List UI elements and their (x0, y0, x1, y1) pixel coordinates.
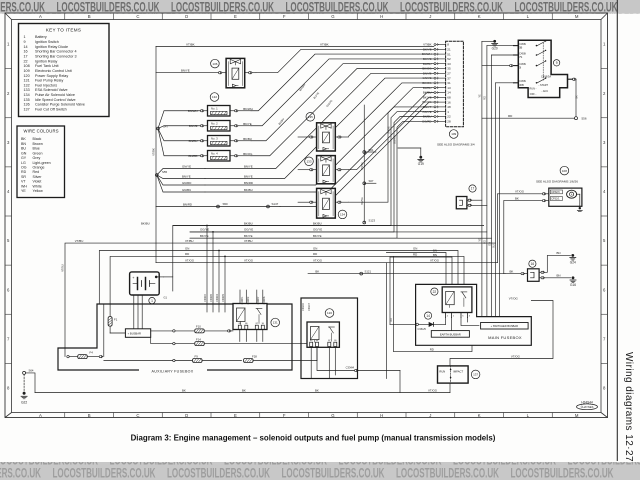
svg-text:OG: OG (21, 166, 27, 170)
diode item 14 (425, 312, 432, 319)
svg-text:VT/OG: VT/OG (185, 259, 195, 263)
frame corner diagonals (5, 13, 12, 20)
svg-text:14: 14 (24, 45, 28, 49)
bus row BK/YE (190, 237, 492, 239)
ECU pin 68 (BK/YE) (436, 96, 445, 98)
svg-text:VT/OG: VT/OG (430, 259, 440, 263)
svg-text:C456/: C456/ (519, 62, 526, 66)
bus row BK/BU (173, 226, 484, 292)
svg-text:F14: F14 (196, 337, 201, 341)
svg-text:BN/RD: BN/RD (189, 154, 198, 158)
risers to fuseboxes (385, 263, 387, 379)
svg-text:J: J (429, 14, 431, 19)
fuel cut off switch item 137 (438, 366, 469, 383)
svg-text:VT/BK: VT/BK (152, 148, 156, 156)
16 to G24 (539, 271, 541, 273)
svg-text:9: 9 (24, 40, 26, 44)
svg-text:- START: - START (539, 84, 549, 87)
svg-text:21: 21 (447, 47, 451, 51)
svg-text:BN: BN (557, 251, 561, 255)
wire BN/YE/BN/YE from S55 (157, 175, 205, 179)
border frame outer (5, 13, 608, 418)
svg-text:GN/YE: GN/YE (182, 165, 191, 169)
ECU pin 31 (BK/OG) (436, 82, 445, 84)
bus row OG/YE (190, 231, 487, 233)
svg-text:KEY TO ITEMS: KEY TO ITEMS (46, 28, 82, 33)
svg-text:135: 135 (308, 115, 313, 119)
svg-text:G19: G19 (418, 162, 424, 166)
bottom BK earth wire (35, 392, 450, 394)
svg-text:35: 35 (447, 67, 451, 71)
ECU connector item 109 dashed box (446, 41, 464, 127)
svg-text:BK: BK (242, 388, 246, 392)
injector No.1 (208, 106, 231, 117)
svg-text:RUN -: RUN - (530, 87, 537, 90)
svg-text:9: 9 (556, 61, 558, 65)
svg-text:52: 52 (447, 57, 451, 61)
fuel injectors item 132 (210, 93, 219, 102)
svg-text:J: J (429, 413, 431, 418)
svg-text:S55: S55 (162, 170, 168, 174)
ECU pin 27 (BN/YE) (436, 72, 445, 74)
svg-text:C339/5: C339/5 (222, 293, 225, 301)
VT/OG wire fusebox to inertia switch (450, 301, 553, 366)
wire BK/WH to ECU pin 51 (251, 54, 434, 111)
fuel pump relay item 131 (233, 304, 267, 330)
svg-text:G1: G1 (164, 296, 168, 300)
valve pin wires (298, 136, 309, 138)
svg-text:S147: S147 (272, 202, 279, 206)
svg-text:M: M (575, 413, 579, 418)
svg-text:C339/4: C339/4 (204, 293, 207, 301)
wire BK/OG to ECU pin 35 (251, 69, 434, 156)
ECU circled ref 109 (449, 130, 458, 139)
svg-text:E: E (234, 413, 237, 418)
wire BK/BU to ECU pin 14 (205, 93, 434, 193)
RD wire below fusebox (393, 256, 472, 351)
wire GN/YE/BN/YE from S55 (157, 169, 205, 176)
svg-text:VT/BK: VT/BK (320, 42, 329, 46)
svg-text:E: E (234, 14, 237, 19)
svg-text:YE: YE (21, 189, 26, 193)
grid row ticks (5, 68, 11, 70)
power supply relay enclosure item 120 (301, 298, 358, 379)
main fusebox outline (416, 284, 532, 345)
svg-text:28: 28 (447, 119, 451, 123)
svg-text:Shorting Bar Connector 3: Shorting Bar Connector 3 (35, 54, 77, 58)
svg-text:Fuel Pump Relay: Fuel Pump Relay (35, 79, 63, 83)
svg-text:BK: BK (510, 269, 514, 273)
riser BK to bus (503, 201, 505, 274)
svg-text:CP32/1: CP32/1 (551, 198, 560, 201)
earth busbar (431, 331, 469, 338)
svg-text:BN/YE: BN/YE (244, 175, 253, 179)
svg-text:Green: Green (33, 151, 43, 155)
svg-text:Red: Red (33, 170, 40, 174)
ECU pin 1 (OG/YE) (436, 111, 445, 113)
shorting bar connector item 17 (456, 197, 467, 209)
svg-text:27: 27 (447, 71, 451, 75)
svg-text:131: 131 (24, 79, 30, 83)
svg-text:BK/BU: BK/BU (141, 221, 150, 225)
svg-text:OG/YE: OG/YE (200, 228, 209, 232)
svg-text:BK: BK (182, 388, 186, 392)
svg-text:1: 1 (24, 35, 26, 39)
svg-text:CP32/3: CP32/3 (551, 191, 560, 194)
scanned page right edge line (616, 0, 618, 461)
bus row RD (110, 256, 464, 316)
svg-text:14: 14 (447, 91, 451, 95)
svg-text:M: M (575, 14, 579, 19)
svg-text:RUN: RUN (439, 369, 445, 373)
svg-text:BK/YE: BK/YE (313, 234, 322, 238)
svg-text:Orange: Orange (33, 166, 45, 170)
valve pin wires (298, 201, 309, 203)
svg-text:7S: 7S (519, 55, 522, 59)
svg-text:GN/RD: GN/RD (182, 181, 191, 185)
injector No.4 (208, 151, 231, 162)
svg-text:White: White (33, 184, 42, 188)
svg-text:+ SWITCHED BUSBAR: + SWITCHED BUSBAR (491, 324, 519, 328)
ECU pin 8 (VT/BK) (436, 44, 445, 46)
svg-text:C361/5: C361/5 (418, 327, 427, 331)
svg-text:OG/YE: OG/YE (394, 136, 397, 144)
svg-text:S50: S50 (223, 202, 229, 206)
svg-text:C456/: C456/ (519, 79, 526, 83)
switch wire joints (487, 45, 514, 47)
svg-text:YE: YE (479, 238, 482, 242)
valve pin wires (298, 169, 309, 171)
svg-text:WH: WH (21, 184, 27, 188)
svg-text:SEE ALSO DIAGRAMS 1/6/26: SEE ALSO DIAGRAMS 1/6/26 (536, 180, 578, 184)
svg-text:C: C (136, 14, 139, 19)
svg-text:RD: RD (21, 170, 27, 174)
fuse F14 row (151, 337, 173, 343)
wire BK/BU to ECU pin 13 (205, 88, 434, 185)
wire BK/OG to ECU pin 31 (349, 83, 434, 136)
svg-text:109: 109 (24, 69, 30, 73)
svg-text:1: 1 (151, 299, 153, 303)
svg-text:16: 16 (447, 100, 451, 104)
wire GN/BU/BK/BU from S55 (157, 175, 205, 192)
wire VT/BK top run (156, 46, 434, 48)
svg-text:F4: F4 (90, 350, 94, 354)
svg-text:VT/OG: VT/OG (515, 190, 525, 194)
wire RD from 556 to ECU area (482, 117, 575, 119)
svg-text:17: 17 (471, 187, 475, 191)
svg-text:BN/RD: BN/RD (244, 181, 253, 185)
svg-text:31: 31 (447, 81, 451, 85)
svg-text:C456/3A: C456/3A (541, 75, 551, 79)
svg-text:BN: BN (433, 248, 437, 252)
splice S64 and ground G22 (23, 371, 26, 374)
svg-text:SEE ALSO DIAGRAMS 3/4: SEE ALSO DIAGRAMS 3/4 (437, 142, 475, 146)
ECU pin 14 (BK/BU) (436, 92, 445, 94)
wire BN/YT to ECU pin 48 (349, 107, 434, 202)
svg-text:VT/BU: VT/BU (185, 239, 194, 243)
svg-text:120: 120 (327, 311, 332, 315)
wire C339/9 into auxiliary fusebox (212, 232, 214, 312)
wire OG/RD to ECU pin 28 (190, 121, 434, 238)
svg-text:C339/7: C339/7 (257, 296, 260, 304)
canister purge solenoid valve item 136 (156, 72, 218, 74)
svg-text:VT/OG: VT/OG (428, 388, 438, 392)
svg-text:+ BUSBAR: + BUSBAR (128, 331, 141, 335)
svg-text:136: 136 (24, 103, 30, 107)
svg-text:G24: G24 (570, 260, 576, 264)
svg-text:136: 136 (212, 62, 217, 66)
svg-text:BN/WH: BN/WH (188, 109, 198, 113)
svg-text:48: 48 (447, 105, 451, 109)
wire GN/RD/BN/RD from S55 (157, 175, 205, 185)
wire BK/YE to ECU pin 21 (256, 49, 434, 72)
svg-text:K: K (478, 14, 481, 19)
svg-text:BN: BN (21, 142, 26, 146)
svg-text:C: C (136, 413, 139, 418)
svg-text:BK: BK (315, 388, 319, 392)
svg-text:30B: 30B (519, 83, 524, 87)
svg-text:Ignition Switch: Ignition Switch (35, 40, 59, 44)
injector No.2 (208, 121, 231, 132)
ECU pin 28 (OG/RD) (436, 120, 445, 122)
svg-text:VT/BU: VT/BU (75, 239, 84, 243)
svg-text:5B: 5B (519, 46, 522, 50)
wire from switch to splice 556 (575, 79, 577, 117)
wire C339/3 into auxiliary fusebox (218, 251, 220, 313)
svg-text:EARTH BUSBAR: EARTH BUSBAR (440, 332, 461, 336)
pulse air solenoid valve item 134 (317, 188, 336, 218)
wire OG/YE to ECU pin 1 (173, 112, 434, 226)
wire colours box (17, 126, 65, 198)
svg-text:Grey: Grey (33, 156, 41, 160)
svg-text:51: 51 (447, 52, 451, 56)
svg-text:Fuel Tank Unit: Fuel Tank Unit (35, 64, 59, 68)
wire BN/RD with splices S50 and S147 (156, 206, 280, 208)
svg-text:22: 22 (433, 290, 437, 294)
wire BK/YE to ECU pin 68 (349, 97, 434, 169)
riser VT/OG to bus (497, 194, 499, 263)
svg-text:VT/BU: VT/BU (244, 239, 253, 243)
svg-text:GN: GN (313, 246, 317, 250)
svg-text:C456/: C456/ (519, 42, 526, 46)
svg-text:BK/WH: BK/WH (243, 107, 252, 111)
svg-text:BK/YE: BK/YE (243, 122, 252, 126)
grid column ticks (64, 14, 66, 20)
svg-text:C456/: C456/ (519, 51, 526, 55)
svg-text:GN: GN (185, 246, 189, 250)
svg-text:133: 133 (24, 88, 30, 92)
ECU pin 22 (BK/BU) (436, 116, 445, 118)
svg-text:22: 22 (447, 115, 451, 119)
svg-text:VT/OG: VT/OG (509, 296, 519, 300)
svg-text:S123: S123 (369, 218, 376, 222)
svg-text:B: B (88, 413, 91, 418)
svg-text:BN: BN (557, 274, 561, 278)
battery item 1 (130, 272, 160, 295)
svg-text:OG/YE: OG/YE (313, 228, 322, 232)
ECU pin 52 (BK/YE) (436, 58, 445, 60)
ECU pin 16 (BK/OG) (436, 101, 445, 103)
svg-text:22: 22 (24, 59, 28, 63)
bus row VT/OG (156, 262, 498, 264)
fuse F9 / F28 row (104, 360, 173, 362)
svg-text:Battery: Battery (35, 35, 47, 39)
wire BK/BU to ECU pin 22 (190, 117, 434, 232)
svg-text:BU: BU (21, 147, 26, 151)
svg-text:G16: G16 (570, 283, 576, 287)
svg-text:137: 137 (24, 108, 30, 112)
wire BK/BU to ECU pin 33 (251, 64, 434, 141)
svg-text:F1: F1 (114, 317, 118, 321)
svg-text:BU: BU (492, 244, 495, 248)
svg-text:Silver: Silver (33, 175, 43, 179)
svg-text:H: H (380, 413, 383, 418)
svg-text:68: 68 (447, 95, 451, 99)
svg-text:BK: BK (515, 196, 519, 200)
battery feed up to bus (163, 276, 172, 278)
svg-text:BN: BN (433, 253, 437, 257)
ignition switch item 9 (518, 40, 567, 97)
svg-text:108: 108 (24, 64, 30, 68)
svg-text:GN: GN (21, 151, 27, 155)
wire BK/OG to ECU pin 16 (280, 102, 434, 206)
svg-text:RD: RD (484, 96, 487, 100)
svg-text:©HAYNES: ©HAYNES (581, 405, 594, 409)
svg-text:Wiring diagrams 12·27: Wiring diagrams 12·27 (623, 352, 634, 462)
switched busbar (481, 323, 528, 330)
ECU pin 35 (BK/OG) (436, 68, 445, 70)
svg-text:33: 33 (447, 62, 451, 66)
ground G20 (482, 40, 493, 42)
feeds to 108 (498, 193, 543, 195)
svg-text:5I: 5I (519, 66, 521, 70)
svg-text:134: 134 (24, 93, 30, 97)
svg-text:16: 16 (531, 262, 535, 266)
wire GN/YE to ECU pin 37 (205, 78, 434, 178)
svg-text:WIRE COLOURS: WIRE COLOURS (24, 128, 59, 133)
svg-text:109: 109 (451, 132, 456, 136)
fuse F1 (108, 317, 112, 327)
svg-text:GN: GN (488, 242, 491, 246)
svg-text:VT/BK: VT/BK (423, 43, 431, 47)
svg-text:SR: SR (21, 175, 26, 179)
svg-text:37: 37 (447, 76, 451, 80)
svg-text:G22: G22 (21, 400, 27, 404)
ECU pin 33 (BK/BU) (436, 63, 445, 65)
wire C339/5 into auxiliary fusebox (224, 256, 226, 312)
svg-text:135: 135 (24, 98, 30, 102)
svg-text:132: 132 (24, 83, 30, 87)
ECU pin 51 (BK/WH) (436, 53, 445, 55)
svg-text:Power Supply Relay: Power Supply Relay (35, 74, 68, 78)
svg-text:YE: YE (479, 94, 482, 98)
16 to G16 (539, 277, 541, 279)
svg-text:17: 17 (24, 54, 28, 58)
svg-text:No. 1: No. 1 (211, 107, 218, 111)
svg-text:BK/YE: BK/YE (388, 126, 391, 134)
key to items box (19, 24, 110, 117)
svg-text:120: 120 (24, 74, 30, 78)
svg-text:BN/YE: BN/YE (244, 165, 253, 169)
svg-text:BK: BK (315, 269, 319, 273)
svg-text:VT/OG: VT/OG (313, 259, 323, 263)
svg-text:ESA Solenoid Valve: ESA Solenoid Valve (35, 88, 68, 92)
svg-text:H: H (380, 14, 383, 19)
top watermark band (0, 0, 640, 14)
svg-text:MAIN FUSEBOX: MAIN FUSEBOX (488, 335, 522, 340)
svg-text:C339/9: C339/9 (210, 293, 213, 301)
svg-text:Yellow: Yellow (33, 189, 44, 193)
svg-text:RD: RD (313, 252, 317, 256)
svg-text:G20: G20 (492, 46, 498, 50)
svg-text:C339/1: C339/1 (241, 296, 244, 304)
svg-text:BK/BU: BK/BU (243, 137, 252, 141)
svg-text:F28: F28 (252, 354, 257, 358)
svg-text:BK/BU: BK/BU (244, 188, 253, 192)
svg-text:F: F (283, 14, 286, 19)
svg-text:BK/BU: BK/BU (313, 221, 322, 225)
svg-text:BN/RD: BN/RD (183, 202, 192, 206)
svg-text:B: B (88, 14, 91, 19)
svg-text:Electronic Control Unit: Electronic Control Unit (35, 69, 72, 73)
svg-text:A: A (39, 14, 42, 19)
svg-text:BU/YE: BU/YE (361, 197, 364, 205)
svg-text:137: 137 (473, 373, 478, 377)
battery to busbar wires (133, 295, 135, 329)
svg-text:VT/BU: VT/BU (62, 264, 65, 272)
svg-text:BN/YE: BN/YE (181, 69, 190, 73)
svg-text:Canister Purge Solenoid Valve: Canister Purge Solenoid Valve (35, 103, 85, 107)
ignition switch verticals down to fusebox (481, 41, 483, 316)
svg-text:AUXILIARY FUSEBOX: AUXILIARY FUSEBOX (152, 369, 194, 373)
svg-text:Ignition Relay Diode: Ignition Relay Diode (35, 45, 68, 49)
svg-text:S64: S64 (29, 369, 34, 373)
busbar (125, 329, 150, 338)
svg-text:Fuel Injectors: Fuel Injectors (35, 83, 57, 87)
svg-text:Black: Black (33, 137, 42, 141)
vertical feed wire from VT/BK down to S47/S55 (155, 47, 157, 263)
ECU pin 13 (BK/BU) (436, 87, 445, 89)
BK wire into 16 (505, 273, 521, 275)
svg-text:BK/OG: BK/OG (243, 152, 253, 156)
svg-text:C339/8: C339/8 (263, 296, 266, 304)
wire BN/YE to ECU pin 27 (205, 73, 434, 168)
svg-text:RD: RD (185, 252, 189, 256)
fuse F4 row (67, 355, 69, 357)
auxiliary fusebox outline (58, 304, 292, 370)
svg-text:A: A (39, 413, 42, 418)
svg-text:VT/OG: VT/OG (511, 354, 521, 358)
svg-text:RD: RD (390, 318, 393, 322)
svg-text:GN: GN (413, 246, 417, 250)
svg-text:BN/YE: BN/YE (182, 175, 191, 179)
svg-text:108: 108 (562, 169, 567, 173)
svg-text:C334/4: C334/4 (346, 366, 355, 370)
svg-text:Shorting Bar Connector 4: Shorting Bar Connector 4 (35, 50, 77, 54)
svg-text:13: 13 (447, 86, 451, 90)
wire C339/4 into auxiliary fusebox (206, 226, 208, 313)
svg-text:Brown: Brown (33, 142, 43, 146)
svg-text:D: D (185, 14, 188, 19)
svg-text:S67: S67 (369, 179, 374, 183)
svg-text:VT/BK: VT/BK (186, 42, 195, 46)
svg-text:F: F (283, 413, 286, 418)
svg-text:VT: VT (21, 180, 26, 184)
svg-text:VT/OG: VT/OG (244, 259, 254, 263)
ignition relay item 22 (442, 287, 472, 313)
svg-text:131: 131 (273, 321, 278, 325)
ECU pin 37 (GN/YE) (436, 77, 445, 79)
